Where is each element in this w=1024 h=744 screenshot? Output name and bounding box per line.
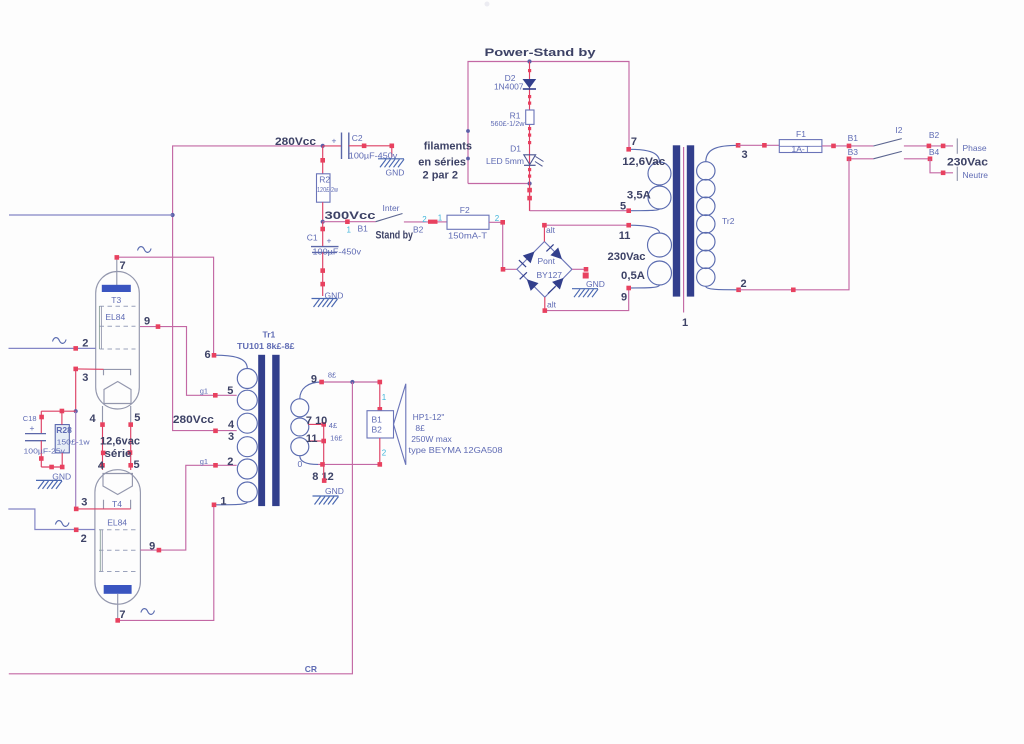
svg-text:type BEYMA 12GA508: type BEYMA 12GA508 [409, 445, 503, 455]
svg-text:5: 5 [134, 459, 140, 471]
ground symbol bridge [572, 279, 605, 297]
junction squares on C1 gnd wire [320, 268, 325, 286]
svg-text:2: 2 [495, 214, 500, 223]
pin 2 square T4 [74, 528, 79, 533]
pin 5 square [626, 208, 631, 213]
T3 anode cap [102, 285, 131, 292]
capacitor C2 [323, 133, 349, 160]
svg-text:Phase: Phase [963, 143, 987, 153]
pin 3 square [736, 143, 741, 148]
bridge diode bottom-left [520, 272, 539, 291]
svg-text:Stand by: Stand by [376, 229, 414, 241]
svg-text:12,6Vac: 12,6Vac [622, 156, 665, 168]
svg-text:D1: D1 [510, 144, 521, 154]
T3 grid dashed electrodes [100, 306, 136, 349]
node 300Vcc [321, 220, 325, 224]
wire speaker lead 2 [378, 438, 383, 467]
T3 anode lead [116, 258, 118, 285]
svg-text:Tr2: Tr2 [722, 216, 735, 226]
junction squares on C2 wire [362, 144, 394, 149]
pin 7 square [626, 147, 631, 152]
wire speaker lead 1 [378, 380, 383, 412]
pin 3 square [73, 367, 78, 372]
scan speck top [485, 2, 490, 7]
svg-text:8£: 8£ [415, 423, 425, 433]
resistor R2 [317, 174, 331, 202]
T4 anode bracket [104, 500, 131, 509]
svg-text:1: 1 [382, 393, 387, 402]
speaker horn [394, 384, 406, 465]
svg-text:7: 7 [120, 260, 126, 272]
pin 2 square [736, 288, 741, 293]
svg-text:I2: I2 [895, 125, 902, 135]
junction square [320, 158, 325, 163]
svg-text:C1: C1 [307, 233, 318, 243]
wire D2-R1-D1 string vertical [529, 62, 531, 212]
wire sec 0 to speaker return [318, 462, 380, 467]
svg-text:9: 9 [144, 316, 150, 328]
T3 grid lead [99, 306, 101, 349]
svg-text:120£-2w: 120£-2w [317, 185, 338, 194]
heater lead left T3-T4 [100, 406, 105, 470]
svg-text:9: 9 [149, 541, 155, 553]
T3 cathode bracket [104, 369, 131, 375]
wire B3 to Tr2 pin 2 [739, 159, 849, 290]
svg-text:LED 5mm: LED 5mm [486, 156, 524, 166]
svg-text:Power-Stand by: Power-Stand by [485, 47, 597, 59]
tube T4 envelope [95, 470, 140, 605]
bridge diode bottom-right [548, 278, 564, 294]
wire T3 pin7 anode to Tr1 pin 6 [117, 257, 214, 355]
wire T3 pin3 cathode [76, 368, 104, 370]
svg-text:5: 5 [134, 412, 140, 424]
ground symbol Tr1 sec [313, 486, 344, 505]
ground symbol C2 [378, 159, 404, 178]
svg-text:+: + [332, 136, 337, 146]
tube T3 envelope [96, 272, 140, 410]
wire R2 to node [322, 202, 324, 222]
svg-text:2 par 2: 2 par 2 [423, 170, 458, 182]
wire C18 branch top [39, 409, 75, 433]
wire left input line [9, 214, 173, 216]
svg-text:2: 2 [741, 278, 747, 290]
wire 280Vcc feed [173, 146, 323, 431]
diode D2 [523, 79, 537, 89]
wire box bottom to pin 5 [527, 184, 628, 211]
transformer Tr1 core [258, 355, 279, 506]
wire blade to B4 [904, 158, 930, 160]
terminal tick Neutre [956, 167, 958, 181]
Tr2 center lead [683, 147, 685, 313]
capacitor C18 plates [25, 434, 46, 441]
node filament tap B [466, 157, 470, 161]
svg-text:F1: F1 [796, 129, 806, 139]
svg-text:2: 2 [227, 456, 233, 468]
wire cathode vertical to C18 node [75, 369, 77, 411]
pin 2 square Tr1 [213, 463, 218, 468]
svg-text:250W max: 250W max [411, 434, 452, 444]
pin 9 square [626, 286, 631, 291]
node bottom of box [528, 181, 532, 185]
ac squiggle T3 grid [53, 338, 67, 344]
fuse F1 [779, 140, 822, 153]
ground symbol C18 [36, 472, 71, 489]
svg-text:150mA-T: 150mA-T [448, 231, 487, 241]
junction dots on string [528, 69, 531, 178]
svg-text:1A-T: 1A-T [792, 144, 810, 154]
svg-text:2: 2 [382, 449, 387, 458]
switch blade Inter [376, 214, 403, 222]
svg-text:Inter: Inter [383, 203, 400, 213]
T4 grid dashed electrodes [99, 530, 136, 572]
svg-text:9: 9 [621, 292, 627, 304]
junction square B3 [847, 157, 852, 162]
Tr1 secondary winding [291, 382, 322, 464]
junction squares [831, 144, 851, 149]
svg-text:B1: B1 [372, 415, 383, 425]
wire 300Vcc to switch B1 [323, 221, 376, 223]
svg-text:+: + [30, 423, 35, 433]
wire input T4 grid [8, 509, 95, 530]
svg-text:g1: g1 [200, 457, 208, 466]
pin 5 square Tr1 [213, 393, 218, 398]
ac squiggle T4 grid [55, 521, 69, 527]
svg-text:4: 4 [98, 460, 105, 472]
svg-text:EL84: EL84 [107, 518, 127, 528]
svg-text:16£: 16£ [330, 434, 343, 443]
svg-text:GND: GND [325, 486, 344, 496]
wire C1 to gnd [322, 252, 324, 296]
svg-text:B2: B2 [372, 425, 383, 435]
wire T4 pin3 [76, 508, 131, 510]
svg-text:en séries: en séries [418, 157, 466, 169]
svg-text:BY127: BY127 [537, 270, 563, 280]
wire bridge top to pin 11 [542, 223, 629, 242]
junction square on pin2 wire [791, 288, 796, 293]
svg-text:g1: g1 [200, 387, 208, 396]
T3 getter pentagon [104, 382, 131, 404]
svg-text:alt: alt [547, 300, 557, 310]
svg-text:1: 1 [682, 317, 688, 329]
wire CR return [9, 382, 353, 674]
ground symbol C1 [312, 290, 344, 307]
svg-text:3,5A: 3,5A [627, 190, 651, 202]
terminal tick Phase [956, 138, 958, 153]
svg-text:100µF-25v: 100µF-25v [24, 447, 66, 456]
junction square Neutre [941, 171, 946, 176]
T4 anode lead [117, 594, 119, 619]
bridge diode top-left [519, 252, 535, 268]
svg-text:filaments: filaments [424, 141, 472, 153]
svg-text:300Vcc: 300Vcc [325, 210, 376, 222]
pin 7 square T3 [115, 255, 120, 260]
tap 7 10 wire [308, 422, 326, 427]
svg-text:7: 7 [631, 136, 637, 148]
Tr2 winding 230Vac [629, 225, 672, 288]
svg-text:B2: B2 [413, 225, 424, 235]
svg-text:0,5A: 0,5A [621, 270, 645, 282]
svg-text:4: 4 [90, 413, 97, 425]
tap 11 wire [308, 439, 326, 444]
resistor R28 [55, 425, 69, 453]
junction squares F2-bridge [500, 220, 505, 272]
svg-text:230Vac: 230Vac [608, 251, 646, 263]
svg-text:7: 7 [119, 609, 125, 621]
wire T4 pin7 to Tr1 pin 1 [118, 505, 214, 621]
wire power-standby box outline [468, 62, 629, 184]
wire blade to B2 [904, 145, 953, 147]
junction square [762, 143, 767, 148]
Tr2 primary winding [697, 145, 739, 289]
svg-text:3: 3 [81, 496, 87, 508]
switch blade I2 lower [873, 151, 901, 158]
svg-text:4: 4 [228, 419, 235, 431]
svg-text:5: 5 [620, 200, 626, 212]
svg-text:3: 3 [742, 149, 748, 161]
svg-text:C2: C2 [352, 133, 363, 143]
svg-text:11: 11 [306, 433, 318, 445]
svg-text:3: 3 [82, 372, 88, 384]
ac squiggle T3 top [138, 247, 152, 253]
svg-text:TU101 8k£-8£: TU101 8k£-8£ [237, 341, 295, 351]
svg-text:6: 6 [205, 349, 211, 361]
capacitor C1 [311, 222, 339, 253]
svg-text:CR: CR [305, 664, 317, 674]
svg-text:Pont: Pont [538, 256, 556, 266]
heater lead right T3-T4 [128, 406, 133, 470]
pin 11 square [626, 223, 631, 228]
pin 2 square [73, 346, 78, 351]
svg-text:100µF-450v: 100µF-450v [313, 246, 362, 256]
svg-text:T4: T4 [112, 499, 122, 509]
wire T3 pin9 to Tr1 pin5 [140, 327, 237, 396]
svg-text:1N4007: 1N4007 [494, 82, 524, 92]
pin 3 square T4 [74, 507, 79, 512]
Tr1 primary winding [214, 355, 257, 505]
wire C18 bottom bus [41, 465, 64, 470]
Tr2 winding 12.6Vac [629, 149, 671, 210]
wire bridge bottom to pin 9 [543, 288, 629, 313]
svg-text:280Vcc: 280Vcc [173, 414, 214, 426]
transformer Tr2 core [673, 145, 694, 296]
pin 9 square [156, 324, 161, 329]
wire C2 to gnd [349, 146, 392, 157]
svg-text:3: 3 [228, 431, 234, 443]
bridge rectifier outline [517, 242, 572, 298]
svg-text:2: 2 [82, 338, 88, 350]
wire 280Vcc tap [213, 429, 218, 434]
wire Tr1 sec 9 to speaker [322, 381, 380, 383]
T4 getter pentagon [103, 474, 132, 495]
wire F1 to switch I2 [822, 145, 874, 147]
wire C18 bottom lead [39, 441, 44, 467]
speaker terminal box B1 B2 [367, 411, 394, 438]
resistor R1 [526, 110, 534, 124]
svg-text:8£: 8£ [328, 371, 337, 380]
junction square B4 [928, 157, 933, 162]
svg-text:R28: R28 [56, 425, 72, 435]
svg-text:série: série [105, 448, 132, 460]
svg-text:B1: B1 [848, 133, 859, 143]
junction squares B2 [927, 144, 946, 149]
wire R28 leads [61, 411, 63, 467]
svg-text:F2: F2 [460, 205, 470, 215]
svg-text:Tr1: Tr1 [263, 330, 276, 340]
wire junction to R2 [322, 146, 324, 174]
wire tap bus vertical [323, 424, 325, 464]
svg-text:150£-1w: 150£-1w [57, 437, 91, 446]
svg-text:Neutre: Neutre [963, 170, 989, 180]
svg-text:GND: GND [586, 279, 605, 289]
svg-text:B1: B1 [358, 223, 369, 233]
bridge diode top-right [546, 244, 562, 259]
svg-text:B4: B4 [929, 147, 940, 157]
svg-text:T3: T3 [111, 295, 121, 305]
pin 9 square T4 [157, 548, 162, 553]
wire switch to F2 [404, 221, 428, 223]
svg-text:5: 5 [227, 385, 233, 397]
T4 grid lead [100, 530, 102, 571]
svg-text:9: 9 [311, 374, 317, 386]
wire bridge right to gnd [572, 267, 589, 279]
wire gnd stub 8 12 [322, 464, 327, 483]
wire input T3 grid [9, 347, 96, 349]
wire B3 lower [849, 158, 873, 160]
node filament tap A [466, 129, 470, 133]
svg-text:EL84: EL84 [105, 312, 125, 322]
svg-text:B2: B2 [929, 130, 940, 140]
pin 6 square [212, 353, 217, 358]
ac squiggle T4 bottom [141, 609, 155, 615]
pin 9 square Tr1 [319, 380, 324, 385]
svg-text:560£-1/2w: 560£-1/2w [491, 119, 526, 128]
svg-text:1: 1 [220, 496, 226, 508]
svg-text:B3: B3 [848, 147, 859, 157]
contact dash [428, 220, 438, 224]
svg-text:4£: 4£ [329, 421, 338, 430]
svg-text:GND: GND [386, 168, 405, 178]
svg-text:0: 0 [298, 459, 303, 469]
wire F2 to bridge [489, 222, 517, 269]
svg-text:11: 11 [619, 230, 631, 242]
wire T4 pin9 to Tr1 pin2 [140, 465, 236, 550]
node top of box [527, 59, 531, 63]
node 280Vcc junction [321, 144, 325, 148]
junction square B1 [345, 219, 350, 224]
svg-text:2: 2 [81, 533, 87, 545]
svg-text:alt: alt [546, 225, 556, 235]
switch blade I2 upper [873, 139, 901, 146]
svg-text:230Vac: 230Vac [947, 157, 988, 169]
LED D1 [524, 155, 544, 167]
fuse F2 [447, 215, 489, 229]
label filaments en series 2 par 2 [418, 141, 472, 182]
pin 1 square Tr1 [212, 503, 217, 508]
wire B4 to Neutre [930, 159, 953, 173]
T4 anode cap [104, 585, 132, 594]
pin 7 square T4 [115, 618, 120, 623]
svg-text:R2: R2 [319, 175, 330, 185]
wire cathode chain down to T4 pin3 [75, 411, 77, 509]
wire pin3 to F1 [738, 144, 779, 146]
svg-text:1: 1 [347, 226, 352, 235]
node C18 junction [74, 409, 78, 413]
svg-text:HP1-12": HP1-12" [413, 412, 445, 422]
svg-text:1: 1 [438, 214, 443, 223]
svg-text:C18: C18 [23, 414, 37, 423]
svg-text:12,6vac: 12,6vac [100, 435, 140, 447]
wire dash to F2 [438, 221, 448, 223]
node left feed junction [171, 213, 175, 217]
svg-text:+: + [327, 236, 332, 246]
node CR junction [350, 380, 354, 384]
svg-text:2: 2 [422, 215, 427, 224]
